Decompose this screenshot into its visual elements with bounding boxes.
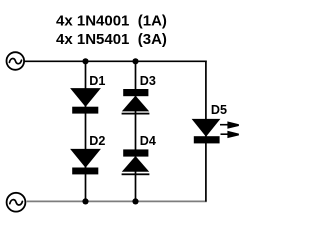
wire: left bridge branch (85, 61, 87, 201)
wire: bottom AC rail (gray) (27, 200, 207, 202)
diode D1 (72, 89, 99, 114)
diode D3 (122, 89, 150, 115)
svg-text:D1: D1 (89, 74, 105, 88)
LED arrow 2 (221, 131, 239, 138)
AC source V2 (bottom left) (7, 193, 26, 212)
junction bottom-left (82, 198, 88, 204)
svg-text:4x 1N4001 (1A): 4x 1N4001 (1A) (56, 12, 167, 29)
wire: LED output branch (205, 60, 207, 201)
wire: top AC rail (24, 60, 207, 62)
svg-text:4x 1N5401 (3A): 4x 1N5401 (3A) (56, 31, 167, 48)
diode D4 (122, 149, 150, 175)
svg-text:D3: D3 (140, 74, 156, 88)
junction top-left (82, 58, 88, 64)
svg-text:D4: D4 (140, 134, 156, 148)
AC source V1 (top left) (7, 52, 25, 70)
LED D5 (194, 120, 220, 144)
svg-text:D5: D5 (211, 103, 227, 117)
LED arrow 1 (220, 121, 239, 128)
junction top-right (132, 58, 138, 64)
wire: right bridge branch (135, 61, 137, 201)
svg-text:D2: D2 (89, 134, 105, 148)
junction bottom-right (132, 198, 138, 204)
diode D2 (72, 150, 99, 175)
